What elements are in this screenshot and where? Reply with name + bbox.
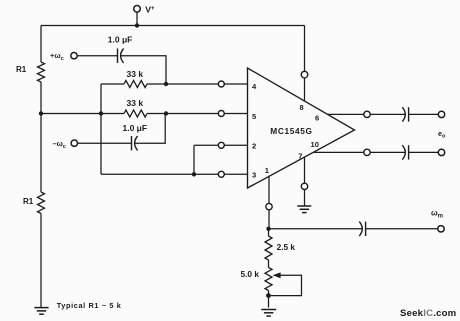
wire (224, 83, 247, 85)
wire (268, 210, 270, 229)
op-amp U1 triangle (248, 68, 355, 188)
capacitor (pin 10 output) (402, 145, 405, 159)
wire (224, 173, 247, 175)
connector circle (218, 81, 224, 87)
svg-text:10: 10 (311, 140, 319, 149)
wire (370, 151, 405, 153)
svg-text:1.0 μF: 1.0 μF (108, 35, 133, 45)
connector circle (364, 111, 370, 117)
connector circle (218, 171, 224, 177)
connector circle (218, 111, 224, 117)
wire (101, 173, 218, 175)
wire (136, 12, 138, 25)
wire (193, 145, 195, 174)
junction (135, 23, 139, 27)
capacitor 1.0 uF (upper) (117, 49, 119, 63)
wire (40, 82, 42, 192)
wire (147, 83, 218, 85)
wire (304, 26, 306, 102)
terminal eo (upper) (438, 111, 444, 117)
connector circle (301, 183, 307, 189)
capacitor (wm output) (359, 222, 362, 236)
wire (41, 25, 305, 27)
ground (297, 205, 311, 207)
wire (268, 291, 270, 308)
svg-text:R1: R1 (23, 197, 34, 206)
svg-text:33 k: 33 k (127, 98, 144, 108)
svg-text:R1: R1 (16, 65, 27, 74)
wire (304, 190, 306, 206)
connector circle (301, 71, 308, 78)
capacitor 1.0 uF (lower) (131, 136, 133, 150)
terminal -wc (71, 140, 77, 146)
V+ terminal (134, 6, 141, 13)
junction (164, 82, 168, 86)
resistor R1 (lower) (38, 192, 45, 214)
svg-text:7: 7 (298, 151, 302, 160)
svg-text:6: 6 (315, 113, 319, 122)
junction (266, 293, 271, 298)
resistor R1 (38, 62, 45, 82)
svg-text:8: 8 (300, 103, 304, 112)
wire (100, 114, 102, 175)
connector circle (266, 203, 272, 209)
wire (40, 26, 42, 63)
wire (77, 55, 117, 57)
svg-text:MC1545G: MC1545G (270, 126, 312, 136)
junction (99, 111, 103, 115)
ground (34, 307, 48, 309)
wire (78, 142, 132, 144)
wire (41, 113, 124, 115)
wire (121, 56, 166, 84)
ground (261, 309, 276, 311)
wire (314, 151, 364, 153)
wire (194, 144, 218, 146)
wire (101, 83, 124, 85)
wire (224, 113, 247, 115)
svg-text:Typical R1 ~ 5 k: Typical R1 ~ 5 k (57, 301, 122, 310)
wire (409, 113, 439, 115)
junction (164, 111, 168, 115)
junction (39, 111, 43, 115)
wire (268, 176, 270, 204)
capacitor (pin 6 output) (402, 107, 405, 121)
wire (269, 228, 363, 230)
wiper arrow (273, 272, 281, 278)
wire (304, 157, 306, 184)
wire (147, 113, 218, 115)
junction (192, 172, 196, 176)
wire (40, 214, 42, 308)
terminal eo (lower) (438, 149, 444, 155)
wire (409, 151, 439, 153)
wire (366, 228, 438, 230)
svg-text:SeekIC.com: SeekIC.com (400, 308, 456, 319)
svg-text:33 k: 33 k (127, 69, 144, 79)
wire (268, 260, 270, 268)
svg-text:3: 3 (252, 171, 256, 180)
resistor 33 k (lower) (124, 110, 147, 117)
terminal +wc (71, 53, 77, 59)
wire (370, 113, 405, 115)
wire (224, 144, 247, 146)
wire (135, 114, 165, 144)
wire (100, 84, 102, 114)
potentiometer 5.0 k (265, 268, 272, 291)
svg-text:1.0 μF: 1.0 μF (123, 123, 148, 133)
wire (268, 229, 270, 236)
wire (271, 275, 302, 295)
svg-text:2.5 k: 2.5 k (277, 242, 296, 252)
svg-text:2: 2 (252, 142, 256, 151)
svg-text:5.0 k: 5.0 k (241, 269, 260, 279)
terminal wm (438, 226, 444, 232)
resistor 2.5 k (265, 236, 272, 260)
wire (328, 113, 364, 115)
connector circle (364, 149, 370, 155)
resistor 33 k (upper) (124, 81, 147, 88)
junction (266, 227, 270, 231)
connector circle (218, 142, 224, 148)
